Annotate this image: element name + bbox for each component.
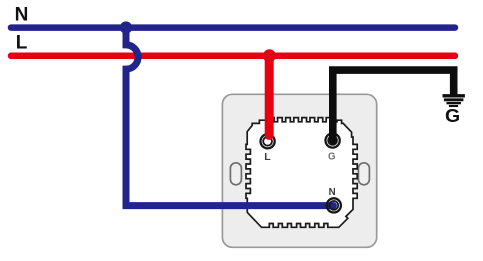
wire ground branch (black, from G terminal to earth)	[333, 70, 454, 139]
svg-text:G: G	[328, 152, 336, 163]
junction dot on L bus	[263, 49, 276, 62]
ground symbol bar 4	[449, 105, 458, 107]
wire ground branch end cap at terminal G	[329, 138, 337, 141]
svg-text:N: N	[15, 4, 29, 25]
wire N bus (blue horizontal)	[11, 24, 455, 31]
socket plate body	[222, 94, 376, 247]
svg-text:L: L	[264, 151, 271, 163]
svg-text:G: G	[445, 106, 460, 126]
ground symbol bar 3	[447, 102, 461, 104]
left oval slot	[230, 163, 241, 185]
wire neutral branch (blue, hops over red bus, to N terminal)	[126, 28, 333, 206]
terminal N rings (over blue wire)	[327, 198, 341, 212]
terminal L rings	[259, 133, 276, 150]
wire live branch (red, from red bus to L terminal)	[265, 56, 274, 136]
right oval slot	[358, 163, 369, 185]
svg-text:L: L	[16, 33, 28, 54]
svg-text:N: N	[329, 187, 336, 198]
wire L bus (red horizontal)	[11, 53, 455, 60]
junction dot on N bus	[120, 21, 132, 33]
ground symbol bar 1	[443, 94, 465, 97]
mounting frame (toothed claw frame)	[246, 118, 357, 228]
ground symbol bar 2	[444, 98, 464, 101]
terminal G rings	[324, 132, 341, 149]
